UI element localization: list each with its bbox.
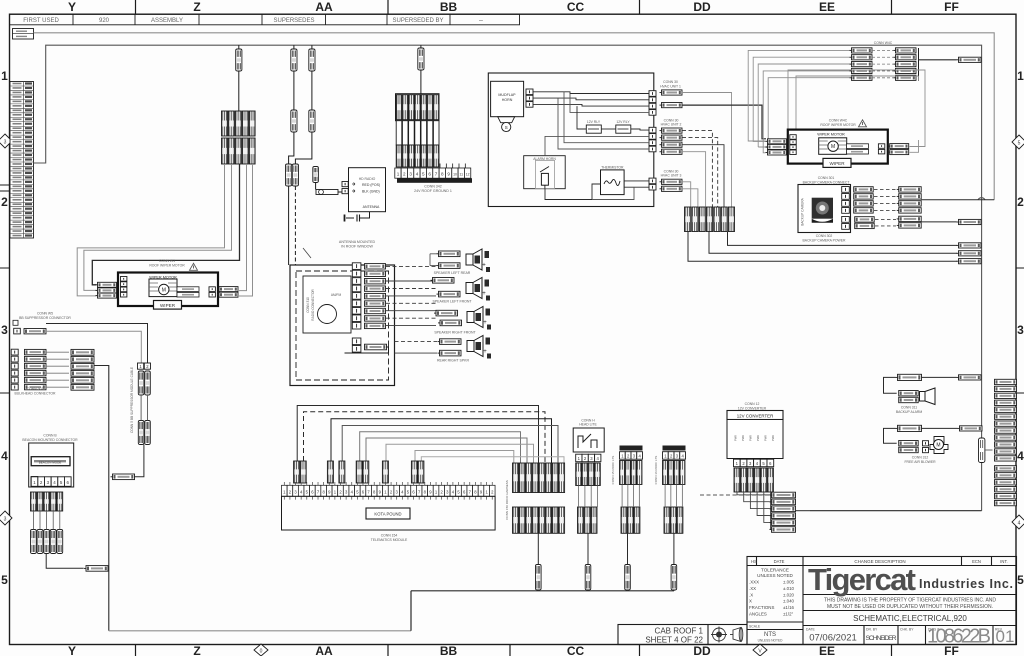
svg-text:TOLERANCE: TOLERANCE — [761, 568, 789, 573]
svg-text:BB SUPPRESSOR CONNECTOR: BB SUPPRESSOR CONNECTOR — [19, 316, 71, 320]
svg-text:FRACTIONS: FRACTIONS — [749, 605, 774, 610]
wiper motor W1 inner block — [149, 279, 177, 297]
svg-text:2: 2 — [1017, 195, 1024, 209]
svg-text:SUPERSEDED BY: SUPERSEDED BY — [392, 18, 443, 24]
svg-text:±.010: ±.010 — [783, 586, 795, 591]
svg-text:+: + — [483, 349, 487, 355]
backup camera output wires — [921, 199, 994, 201]
svg-text:FREE AIR BLOWER: FREE AIR BLOWER — [904, 460, 936, 464]
headlight fuses stage1 — [576, 463, 582, 486]
beacon pin row — [31, 477, 38, 486]
svg-text:6: 6 — [428, 172, 431, 177]
connector J2 right strip lower — [995, 466, 1017, 471]
12V converter wires to stack — [737, 492, 770, 495]
svg-text:SCHEMATIC,ELECTRICAL,920: SCHEMATIC,ELECTRICAL,920 — [853, 614, 967, 623]
svg-text:CONN 150 ROOF HARNESS: CONN 150 ROOF HARNESS — [505, 480, 509, 520]
svg-text:DATE: DATE — [774, 559, 785, 564]
C15 lower fuse — [625, 565, 631, 591]
wire C307 to fuse chain — [46, 331, 141, 363]
dense cluster wires down — [537, 533, 539, 564]
svg-text:4: 4 — [1018, 521, 1021, 527]
svg-text:MUST NOT BE USED OR DUPLICATED: MUST NOT BE USED OR DUPLICATED WITHOUT T… — [827, 604, 993, 610]
speaker G3 connectors — [434, 310, 458, 316]
svg-text:4: 4 — [1, 449, 8, 463]
svg-text:0: 0 — [260, 649, 263, 655]
backup camera box — [798, 185, 851, 233]
svg-text:+: + — [482, 291, 486, 297]
suppressor fuse chain header — [138, 363, 144, 369]
wiper W4 label box — [823, 158, 851, 167]
backup camera pills group2 — [897, 187, 922, 192]
wire fan rails — [297, 406, 538, 464]
svg-text:3: 3 — [4, 140, 7, 146]
wiper W4 right pins — [878, 144, 884, 149]
svg-text:WIPER MOTOR: WIPER MOTOR — [817, 133, 845, 137]
wires cluster to wiper loops — [92, 164, 239, 285]
svg-text:CONN 342: CONN 342 — [424, 185, 442, 189]
connector A-plug pill — [111, 474, 135, 480]
mudflap control box — [491, 81, 524, 116]
connector pill camera power — [957, 219, 982, 224]
connector C342 24V roof ground block — [396, 94, 440, 121]
svg-text:12V RLY: 12V RLY — [616, 120, 630, 124]
speaker wires to right — [386, 266, 436, 268]
svg-text:4: 4 — [416, 172, 419, 177]
wiper W1 right pins — [209, 287, 215, 292]
wire bottom gray return — [109, 630, 411, 632]
headlight wire down — [587, 533, 589, 564]
svg-text:DR. BY: DR. BY — [866, 628, 878, 632]
headlight fuses stage2 — [578, 507, 584, 533]
svg-text:WIPER: WIPER — [829, 161, 845, 166]
svg-text:ECN: ECN — [972, 559, 981, 564]
wire gray loop right inner — [796, 76, 919, 130]
connector C342 terminal row — [395, 168, 471, 178]
svg-text:CC: CC — [567, 644, 585, 656]
svg-text:SCALE: SCALE — [749, 625, 761, 629]
svg-text:SCHNEIDER: SCHNEIDER — [866, 635, 897, 642]
svg-text:CONN 5 BB SUPPRESSOR MODULE C: CONN 5 BB SUPPRESSOR MODULE CABLE — [130, 367, 134, 433]
HVAC internal wires — [533, 92, 649, 94]
svg-text:920: 920 — [99, 18, 110, 24]
svg-text:PWR: PWR — [749, 435, 753, 441]
wiper W4 right connectors — [888, 144, 909, 149]
radio lower pin connector — [352, 338, 361, 345]
headlight pin row — [576, 454, 582, 462]
connector C342 lower fuses — [396, 145, 402, 167]
svg-text:±.040: ±.040 — [783, 599, 795, 604]
connector C342 base bar — [397, 178, 472, 183]
registration mark — [711, 627, 727, 643]
radio unit speaker circle — [318, 305, 337, 324]
svg-text:Y: Y — [68, 644, 76, 656]
warning triangle W4 — [859, 120, 867, 127]
svg-text:±.020: ±.020 — [783, 592, 795, 597]
bottom zone diamond markers — [254, 644, 767, 656]
radio unit dashed inner box — [296, 271, 389, 380]
header strip cells — [10, 14, 520, 25]
sheet label box — [618, 625, 747, 645]
wiper W1 left connectors — [96, 282, 117, 287]
backup alarm loop wire — [884, 377, 897, 393]
svg-text:M: M — [831, 144, 835, 150]
svg-text:BACKUP CAMERA CONNECT: BACKUP CAMERA CONNECT — [803, 180, 850, 184]
backup alarm horn icon — [920, 392, 926, 402]
12V converter body — [727, 420, 783, 459]
svg-text:BB: BB — [440, 0, 458, 14]
HD radio feed fuse — [313, 167, 319, 183]
connector J2 right strip upper — [995, 379, 1017, 384]
speaker G1 icon — [466, 249, 490, 272]
svg-text:BLK (GND): BLK (GND) — [362, 190, 380, 194]
wiper W1 label box — [154, 301, 182, 310]
svg-text:AA: AA — [315, 0, 333, 14]
suppressor fuse chain stage2 — [138, 421, 144, 445]
svg-text:CONN W1: CONN W1 — [159, 259, 175, 263]
svg-text:3: 3 — [4, 517, 7, 523]
connector X1 top left — [13, 29, 34, 40]
backup camera pills group1 — [854, 187, 874, 192]
svg-text:IN ROOF WINDOW: IN ROOF WINDOW — [341, 245, 373, 249]
svg-text:CONN W4C: CONN W4C — [829, 119, 848, 123]
svg-text:5: 5 — [422, 172, 425, 177]
beacon fuses stage1 — [31, 492, 37, 511]
wiper motor W1 assembly box — [118, 273, 218, 307]
wiper W4 inner block — [819, 138, 847, 155]
connector cluster C20 fuses — [222, 111, 228, 136]
svg-text:07/06/2021: 07/06/2021 — [809, 633, 857, 644]
wires HVAC pills to fuse cluster — [682, 93, 732, 208]
svg-text:ANGLES: ANGLES — [749, 612, 767, 617]
svg-text:RED (POS): RED (POS) — [362, 183, 380, 187]
12V converter fuses — [734, 468, 740, 492]
svg-text:INT.: INT. — [1000, 559, 1007, 564]
svg-text:NTS: NTS — [764, 632, 776, 638]
wire bus bottom to stack — [810, 510, 982, 512]
alarm horn sub-box — [524, 156, 566, 189]
svg-text:ROOF WIPER MOTOR: ROOF WIPER MOTOR — [149, 264, 185, 268]
svg-text:+: + — [482, 263, 486, 269]
svg-text:2: 2 — [403, 172, 406, 177]
fuse F2 drop — [293, 45, 295, 49]
wiper W4 left pins — [790, 135, 796, 140]
svg-text:M: M — [936, 443, 940, 449]
svg-text:3: 3 — [1, 323, 8, 337]
svg-text:.XX: .XX — [749, 586, 756, 591]
wiper W4 inner right bars — [847, 144, 869, 149]
svg-text:12V CONVERTER: 12V CONVERTER — [738, 406, 767, 410]
svg-text:S: S — [505, 125, 508, 130]
wire dashed to radio — [288, 186, 290, 265]
bottom grid ticks — [136, 644, 892, 656]
svg-text:BULKHEAD CONNECTOR: BULKHEAD CONNECTOR — [14, 391, 56, 395]
fuse cluster C7 — [685, 207, 691, 232]
svg-text:THERMISTOR: THERMISTOR — [601, 166, 624, 170]
svg-text:AA: AA — [315, 644, 333, 656]
svg-text:CONN 16 ROOF LTS: CONN 16 ROOF LTS — [654, 456, 658, 485]
svg-text:SPEAKER RIGHT FRONT: SPEAKER RIGHT FRONT — [434, 331, 476, 335]
svg-text:HVAC UNIT 1: HVAC UNIT 1 — [660, 84, 681, 88]
svg-text:DD: DD — [693, 644, 711, 656]
svg-text:3: 3 — [1017, 323, 1024, 337]
connector C16 fuses stage1 — [663, 461, 668, 485]
svg-text:ALARM HORN: ALARM HORN — [533, 157, 556, 161]
fuse F1 drop — [238, 45, 240, 49]
svg-text:ANTENNA MOUNTED: ANTENNA MOUNTED — [339, 240, 376, 244]
wire cluster to edge pill — [919, 59, 957, 61]
12V converter pin row — [734, 459, 741, 467]
radio pin column — [352, 263, 361, 270]
bulkhead pills column1 — [25, 349, 47, 354]
svg-text:ASSEMBLY: ASSEMBLY — [151, 18, 183, 24]
fuse F3 drop — [311, 45, 313, 49]
svg-text:RADIO CONNECTOR: RADIO CONNECTOR — [311, 289, 315, 321]
radio unit inner box — [303, 276, 351, 333]
svg-text:FIRST USED: FIRST USED — [23, 18, 59, 24]
backup alarm pills — [899, 391, 919, 396]
mudflap pins — [526, 89, 533, 95]
connector pill blower — [958, 426, 983, 431]
svg-text:10: 10 — [453, 173, 457, 177]
svg-text:01: 01 — [996, 627, 1015, 646]
connector C16 cap bar — [663, 446, 686, 451]
svg-text:PWR: PWR — [764, 435, 768, 441]
blower motor icon — [923, 441, 929, 446]
connector pill backup alarm — [957, 375, 982, 380]
svg-text:BEACON MODE: BEACON MODE — [39, 461, 62, 465]
svg-text:DD: DD — [693, 0, 711, 14]
svg-text:UNLESS NOTED: UNLESS NOTED — [758, 639, 783, 643]
svg-text:2: 2 — [1, 195, 8, 209]
connector cluster left bank C40 — [850, 48, 873, 53]
HD radio box — [349, 168, 386, 212]
wiper W1 left pins — [121, 277, 127, 282]
svg-text:1: 1 — [397, 172, 400, 177]
svg-text:12: 12 — [466, 173, 470, 177]
suppressor fuse chain stage1 — [138, 371, 144, 395]
beacon outer box — [29, 443, 74, 487]
title block frame — [747, 557, 1017, 645]
connector C30 HVAC unit 3 pills — [660, 179, 683, 184]
wiper W4 M symbol — [828, 141, 838, 151]
svg-text:+: + — [483, 320, 487, 326]
speaker G1 connectors — [437, 251, 461, 257]
svg-text:1: 1 — [1017, 69, 1024, 83]
speaker G2 icon — [466, 278, 490, 301]
C16 lower fuse — [671, 565, 677, 591]
HVAC enclosure box — [488, 73, 654, 207]
svg-text:4: 4 — [1017, 449, 1024, 463]
svg-text:HVAC UNIT 3: HVAC UNIT 3 — [661, 174, 682, 178]
top grid ticks — [136, 0, 892, 14]
wiper motor W1 M symbol — [159, 284, 169, 294]
wires fuse cluster to right bus — [688, 232, 957, 262]
svg-text:108622B: 108622B — [927, 626, 991, 648]
connector pills right edge mid — [957, 243, 982, 248]
svg-text:SHEET 4 OF 22: SHEET 4 OF 22 — [645, 636, 703, 645]
headlight relay box — [573, 428, 604, 452]
radio pin connectors — [365, 264, 386, 269]
svg-text:SPEAKER LEFT REAR: SPEAKER LEFT REAR — [434, 271, 471, 275]
svg-text:M: M — [162, 288, 166, 294]
HD radio pin rows — [342, 182, 348, 187]
speaker G3 icon — [467, 307, 491, 330]
fuse F5 drop to ground comb — [420, 45, 422, 48]
warning triangle W1 — [190, 263, 198, 270]
connector pill CONN top right — [957, 57, 982, 62]
bulkhead pins — [11, 349, 18, 355]
fuse F3b second stage — [309, 110, 315, 132]
relay K2 12V — [616, 125, 631, 133]
terminal strip fuses — [294, 461, 300, 483]
connector C15 fuses stage1 — [620, 461, 625, 485]
blower feed pill — [896, 425, 922, 431]
connector C15 fuses stage2 — [621, 507, 627, 533]
svg-text:AM/FM: AM/FM — [331, 293, 342, 297]
svg-text:Tigercat: Tigercat — [808, 562, 916, 597]
wire second rail — [34, 45, 982, 511]
wire hop at bus crossing — [978, 198, 985, 200]
HD radio feed connector — [316, 190, 338, 195]
blower loop wire — [884, 428, 897, 443]
svg-text:9: 9 — [447, 172, 450, 177]
svg-text:BACKUP CAMERA POWER: BACKUP CAMERA POWER — [803, 238, 846, 242]
svg-text:12V CONVERTER: 12V CONVERTER — [737, 413, 774, 418]
svg-text:HORN: HORN — [502, 98, 513, 102]
wire bus stub to J2 — [985, 449, 993, 451]
C15 wire down — [627, 533, 629, 564]
terminal strip body box — [282, 496, 496, 530]
relay K1 12V — [586, 125, 601, 133]
svg-text:DATE: DATE — [806, 628, 816, 632]
svg-text:HD RADIO: HD RADIO — [359, 177, 376, 181]
svg-text:11: 11 — [460, 173, 464, 177]
svg-text:±1/2°: ±1/2° — [783, 612, 794, 617]
backup camera pins — [842, 187, 850, 193]
12V converter header — [727, 411, 783, 420]
speaker G2 connectors — [431, 278, 455, 284]
connector C16 pin row — [663, 452, 669, 460]
connector C30 HVAC unit 2 pills — [660, 128, 683, 133]
connector beacon output pill — [84, 566, 108, 572]
wire bulkhead to A-plug — [94, 366, 109, 631]
bulkhead link wires — [46, 351, 69, 353]
svg-text:Industries Inc.: Industries Inc. — [919, 577, 1013, 591]
svg-text:±.005: ±.005 — [783, 580, 795, 585]
beacon fuses stage2 — [31, 530, 37, 554]
backup camera icon — [812, 198, 833, 219]
svg-text:Y: Y — [68, 0, 76, 14]
HVAC pin column right — [649, 91, 656, 97]
svg-text:12V RLY: 12V RLY — [587, 120, 601, 124]
connector cluster right bank C41 — [894, 48, 917, 53]
svg-text:.X: .X — [749, 592, 753, 597]
svg-text:HS: HS — [751, 559, 757, 564]
fuse F2b second stage — [291, 110, 297, 132]
pill stack dashed feed — [700, 494, 770, 496]
backup alarm feed pill — [896, 374, 922, 380]
side zone diamond markers — [0, 134, 1024, 529]
svg-text:MUDFLAP: MUDFLAP — [498, 93, 516, 97]
svg-text:8: 8 — [441, 172, 444, 177]
svg-text:THIS DRAWING IS THE PROPERTY O: THIS DRAWING IS THE PROPERTY OF TIGERCAT… — [824, 598, 996, 604]
fuse F4 pair at radio — [286, 164, 292, 186]
wire beacon to conn pill — [46, 554, 83, 569]
dense fuse cluster stage2 — [513, 507, 519, 533]
alarm horn element — [541, 173, 548, 185]
wires cluster C40 left nested feed — [748, 50, 849, 141]
svg-text:ROOF WIPER MOTOR: ROOF WIPER MOTOR — [820, 123, 856, 127]
svg-text:REAR RIGHT SPKR: REAR RIGHT SPKR — [437, 359, 469, 363]
wiper W1 inner right bars — [177, 287, 199, 292]
headlight lower fuse — [585, 565, 591, 591]
C16 wire down — [673, 533, 675, 564]
speaker G4 connectors — [438, 339, 462, 345]
wiper W4 left connectors — [766, 139, 787, 144]
svg-text:EE: EE — [819, 0, 835, 14]
cluster bank links — [872, 49, 894, 51]
pill stack rows — [770, 492, 796, 498]
connector C15 cap bar — [620, 446, 643, 451]
connector C15 pin row — [620, 452, 626, 460]
svg-text:X: X — [749, 599, 752, 604]
svg-text:PWR: PWR — [734, 435, 738, 441]
beacon mode box — [31, 457, 70, 466]
svg-text:5: 5 — [1, 573, 8, 587]
wire chain to A-plug — [134, 445, 144, 477]
svg-text:WIPER: WIPER — [160, 303, 176, 308]
svg-text:KOTA POUND: KOTA POUND — [374, 512, 401, 517]
svg-text:CONN 310: CONN 310 — [306, 297, 310, 313]
dense fuse cluster stage1 — [513, 463, 519, 493]
side border ticks — [0, 185, 1024, 393]
svg-text:HVAC UNIT 2: HVAC UNIT 2 — [661, 123, 682, 127]
wiper motor W4 assembly box — [788, 130, 888, 164]
svg-text:3: 3 — [409, 172, 412, 177]
speaker G4 icon — [467, 336, 491, 359]
svg-text:UNLESS NOTED: UNLESS NOTED — [757, 573, 793, 578]
svg-text:CONN W4C: CONN W4C — [874, 41, 893, 45]
svg-text:BB: BB — [440, 644, 458, 656]
svg-text:CONN 15 ROOF LTS: CONN 15 ROOF LTS — [611, 456, 615, 485]
inline connector on bus — [979, 438, 985, 463]
ground bus wire bottom — [411, 590, 674, 631]
speaker G4 dashed feed — [395, 341, 438, 343]
svg-text:BACKUP CAMERA: BACKUP CAMERA — [801, 197, 805, 225]
svg-text:PWR: PWR — [741, 435, 745, 441]
svg-text:BEACON MOUNTED CONNECTOR: BEACON MOUNTED CONNECTOR — [22, 438, 78, 442]
projection cone symbol — [730, 628, 743, 642]
pill stack output wires — [796, 510, 811, 512]
svg-text:EE: EE — [819, 644, 835, 656]
wiper W1 right connectors — [217, 287, 238, 292]
connector cluster C20 second stage — [222, 138, 228, 164]
connector C16 fuses stage2 — [664, 507, 670, 533]
svg-text:CC: CC — [567, 0, 585, 14]
svg-text:CHK. BY: CHK. BY — [900, 628, 914, 632]
svg-text:–: – — [479, 17, 483, 24]
mudflap horn symbol — [498, 117, 515, 123]
antenna symbol — [364, 212, 370, 218]
svg-text:BACKUP ALARM: BACKUP ALARM — [896, 410, 922, 414]
backup camera lower pills — [855, 217, 875, 222]
svg-text:1: 1 — [1, 69, 8, 83]
terminal strip name box — [366, 508, 410, 519]
connector C30 HVAC unit 1 pills — [660, 90, 683, 95]
svg-text:24V ROOF GROUND 1: 24V ROOF GROUND 1 — [414, 189, 452, 193]
radio unit outer box — [290, 265, 395, 386]
svg-text:5: 5 — [1017, 573, 1024, 587]
